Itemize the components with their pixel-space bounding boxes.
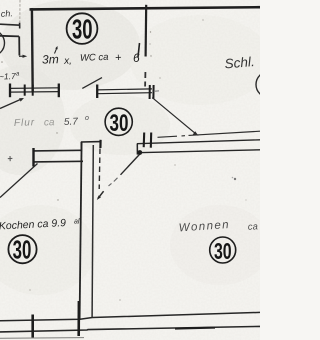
svg-text:Schl.: Schl. bbox=[224, 54, 255, 72]
svg-text:30: 30 bbox=[13, 235, 32, 265]
circled 30 Kueche bbox=[8, 235, 36, 265]
wall WC right bbox=[145, 5, 148, 57]
circled 30 right edge partial bbox=[256, 72, 282, 98]
hinge blob bbox=[137, 150, 142, 155]
wall bottom exterior bottom edge bbox=[0, 326, 260, 332]
wall jog top bbox=[81, 141, 101, 143]
plus mark bbox=[8, 156, 13, 161]
wall band bottom line bbox=[138, 150, 261, 153]
arrow above m bbox=[55, 48, 58, 54]
circled 30 left edge partial bbox=[0, 30, 5, 56]
svg-text:al: al bbox=[74, 219, 80, 226]
door swing Schlafzimmer with arrow bbox=[152, 98, 195, 134]
wall stub left y36 with corner down bbox=[0, 36, 19, 56]
scan specks bbox=[1, 19, 246, 300]
svg-text:x,: x, bbox=[63, 56, 72, 67]
wall band end ticks bbox=[143, 133, 146, 148]
section dash-dot line with arrow bbox=[98, 149, 101, 190]
circled 30 Flur bbox=[105, 108, 132, 137]
svg-text:ca: ca bbox=[44, 117, 55, 128]
svg-text:30: 30 bbox=[72, 15, 93, 46]
wall WC right dashed continuation bbox=[144, 72, 146, 87]
junction tick bottom mid bbox=[77, 301, 80, 336]
svg-text:ca: ca bbox=[247, 221, 258, 233]
wall top (exterior) bbox=[30, 7, 261, 9]
faint vertical x20 bbox=[19, 0, 21, 23]
dimension ticks right bbox=[96, 85, 98, 99]
door swing WC bbox=[82, 78, 102, 89]
wall Flur bottom (double with jog) bbox=[33, 149, 81, 152]
dimension ticks left bbox=[9, 84, 11, 98]
wall bottom exterior top edge bbox=[0, 312, 260, 320]
leader arrow lower left bbox=[0, 99, 22, 109]
wall band middle line bbox=[137, 140, 260, 144]
door leaf Flur bbox=[0, 164, 38, 198]
wall left upper (WC left) bbox=[31, 8, 34, 92]
dimension line left (double) bbox=[10, 88, 60, 92]
jog corner tick bbox=[99, 140, 101, 148]
junction tick bottom left bbox=[31, 315, 34, 338]
wall band left corner bbox=[136, 144, 138, 155]
circled 30 WC bbox=[67, 13, 98, 45]
wall jog vertical bbox=[80, 142, 82, 152]
svg-text:3m: 3m bbox=[42, 52, 59, 67]
wall stub left y24 bbox=[0, 23, 20, 29]
wall end tick flur door bbox=[32, 148, 34, 167]
bottom wall bold segment bbox=[175, 328, 215, 329]
wall band top line (dash-dot) bbox=[158, 131, 261, 137]
wall Kueche right bbox=[92, 145, 93, 317]
svg-text:ch.: ch. bbox=[0, 8, 13, 19]
svg-text:Flur: Flur bbox=[14, 117, 36, 129]
wall Kueche left bbox=[80, 142, 82, 319]
small dot Wohnen bbox=[234, 178, 236, 180]
wall bottom faint extra line bbox=[0, 337, 84, 340]
svg-text:30: 30 bbox=[214, 239, 232, 265]
svg-text:~1.7: ~1.7 bbox=[0, 71, 16, 82]
dimension line right (double) bbox=[97, 89, 152, 94]
svg-text:WC ca: WC ca bbox=[80, 52, 109, 64]
small arrow right at y56 bbox=[19, 55, 25, 57]
svg-text:5.7: 5.7 bbox=[64, 117, 79, 128]
tick after 6 bbox=[138, 43, 140, 57]
room label WC bbox=[42, 49, 140, 68]
door leaf Kueche right bbox=[121, 153, 141, 175]
svg-text:+: + bbox=[115, 52, 122, 64]
circled 30 Wohnen bbox=[210, 237, 236, 265]
svg-text:o: o bbox=[85, 115, 89, 122]
svg-text:30: 30 bbox=[110, 110, 129, 137]
